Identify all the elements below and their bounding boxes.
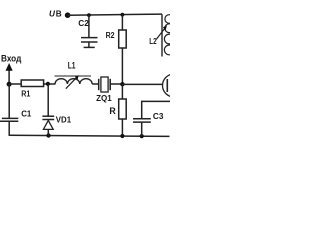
wire C2 branch [88,15,90,37]
svg-text:C2: C2 [78,18,89,28]
varicap VD1 [42,115,71,136]
crystal ZQ1 [96,77,112,103]
svg-text:C1: C1 [21,109,31,119]
svg-text:R: R [109,106,116,116]
wire base node to transistor [122,83,162,85]
node Uв supply terminal [49,10,70,19]
junction base node [120,82,124,86]
wire R1 to VD1 node [44,83,56,85]
svg-text:C3: C3 [153,111,164,121]
wire ZQ1 to base node [110,83,122,85]
wire bottom rail [9,135,169,136]
junction input node [7,82,12,87]
svg-text:ZQ1: ZQ1 [96,93,112,103]
svg-text:R2: R2 [106,30,115,40]
wire L1 to ZQ1 [92,83,99,85]
capacitor C2 [78,18,97,42]
wire R2 top lead [121,15,123,30]
wire input node to C1 [8,84,10,118]
wire R top lead [121,84,123,99]
ground [84,46,95,48]
svg-text:VD1: VD1 [56,115,72,125]
input terminal Вход [1,53,22,84]
resistor R2 [106,30,127,48]
inductor L1 [55,60,93,88]
svg-text:L1: L1 [68,60,76,70]
wire C1 to bottom rail [8,121,10,136]
wire R to bottom rail [121,119,123,136]
svg-text:L2: L2 [149,36,157,46]
resistor R1 [21,80,43,98]
wire VD1 node to varicap [47,84,49,116]
capacitor C3 [133,111,164,122]
junction rail / R [120,134,124,138]
resistor R [109,99,126,119]
junction top rail / R2 [121,13,125,17]
inductor L2 [149,14,174,56]
wire emitter to C3 [142,101,170,118]
wire R2 to base node [121,48,123,84]
capacitor C1 [0,109,31,122]
junction top rail / C2 [87,13,91,17]
wire top rail [68,14,162,15]
wire C2 to ground [88,42,90,47]
svg-text:Вход: Вход [1,53,22,63]
junction rail / VD1 [46,133,50,137]
transistor VT1 [163,74,186,97]
wire input to R1 [9,83,21,85]
svg-text:B: B [56,10,62,19]
wire C3 to bottom rail [141,122,143,136]
svg-text:R1: R1 [21,88,30,98]
junction rail / C3 [140,134,144,138]
junction VD1 node [46,82,50,86]
